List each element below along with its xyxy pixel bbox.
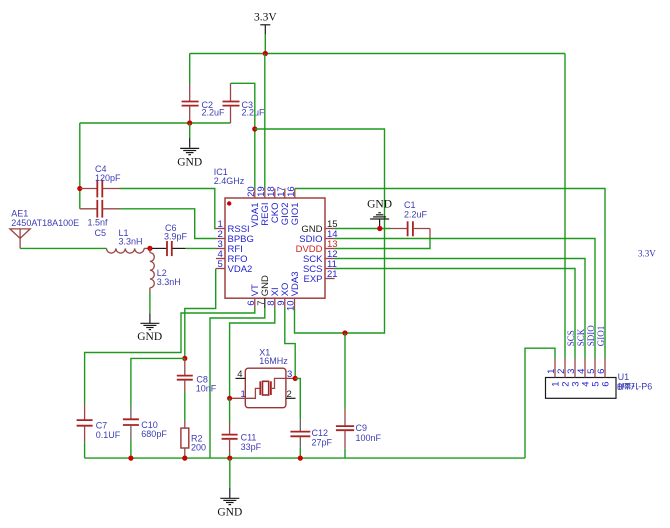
svg-text:SCS: SCS bbox=[566, 330, 576, 346]
svg-text:2.4GHz: 2.4GHz bbox=[214, 176, 245, 186]
capacitor C6 bbox=[152, 223, 188, 256]
wire XI pin8 to X1 pin1 bbox=[230, 308, 275, 398]
capacitor C1 bbox=[391, 200, 431, 238]
wire GIO1 pin16 to connector pin6 bbox=[295, 189, 605, 359]
svg-text:C5: C5 bbox=[95, 228, 107, 238]
svg-text:C9: C9 bbox=[356, 423, 368, 433]
node X1 pin1 junction bbox=[227, 396, 232, 401]
svg-text:GIO1: GIO1 bbox=[290, 203, 301, 226]
connector U1 pin 5 bbox=[586, 359, 602, 387]
svg-text:100nF: 100nF bbox=[356, 433, 382, 443]
svg-text:VDA3: VDA3 bbox=[290, 271, 301, 296]
IC1 pin 14 SDIO bbox=[299, 229, 337, 245]
IC1 pin 18 CKO bbox=[266, 186, 281, 223]
capacitor C4 bbox=[80, 164, 121, 197]
wire antenna feed bbox=[20, 247, 106, 249]
svg-text:33pF: 33pF bbox=[241, 442, 262, 452]
inductor L2 bbox=[150, 248, 181, 292]
svg-text:GND: GND bbox=[217, 507, 242, 519]
wire XO pin9 to X1 pin3 bbox=[285, 308, 295, 378]
IC1 pin 11 SCS bbox=[303, 259, 337, 275]
svg-text:6: 6 bbox=[601, 382, 612, 387]
node C12 rail junction bbox=[298, 456, 303, 461]
IC1 pin 13 DVDD bbox=[296, 239, 338, 255]
wire C5 to BPBG pin2 bbox=[120, 209, 217, 239]
wire C4 to RSSI pin1 bbox=[120, 189, 217, 229]
node X1 pin3 junction bbox=[293, 376, 298, 381]
capacitor C2 bbox=[182, 84, 225, 123]
ground GND (bottom) bbox=[217, 458, 242, 518]
svg-text:3.3nH: 3.3nH bbox=[119, 237, 143, 247]
connector U1 pin 2 bbox=[556, 359, 572, 387]
IC1 pin 4 RFO bbox=[216, 249, 248, 265]
svg-text:VDA2: VDA2 bbox=[228, 264, 253, 275]
ground GND (below C2) bbox=[177, 123, 202, 168]
wire C6 to RFI pin3 bbox=[186, 247, 216, 249]
capacitor C11 bbox=[222, 398, 262, 458]
wire C4/C5 left rail bbox=[79, 123, 81, 209]
wire SCS pin11 to connector pin3 bbox=[335, 269, 575, 359]
wire C3 top to VDA1 bbox=[231, 83, 255, 188]
IC1 pin 9 XO bbox=[276, 283, 291, 308]
svg-text:SCK: SCK bbox=[576, 328, 586, 346]
IC IC1 body bbox=[214, 167, 325, 298]
svg-text:1.5nf: 1.5nf bbox=[88, 218, 109, 228]
IC1 pin 21 EXP bbox=[303, 269, 337, 285]
node C11 rail junction bbox=[227, 456, 232, 461]
capacitor C12 bbox=[290, 378, 332, 458]
connector U1 pin 4 bbox=[576, 359, 592, 387]
wire C2 top drop bbox=[189, 54, 191, 85]
svg-text:21: 21 bbox=[327, 269, 338, 280]
wire VDA2 pin5 to C8/C10 node bbox=[185, 269, 216, 359]
svg-text:-P6: -P6 bbox=[638, 382, 652, 392]
inductor L1 bbox=[107, 228, 150, 253]
IC1 pin 16 GIO1 bbox=[286, 186, 301, 225]
svg-text:EXP: EXP bbox=[303, 274, 322, 285]
ground GND (below L2) bbox=[137, 313, 162, 343]
svg-text:2: 2 bbox=[287, 389, 292, 400]
node R2 rail junction bbox=[182, 456, 187, 461]
connector U1 value label (Chinese stamp-hole text, drawn) bbox=[618, 383, 638, 390]
svg-text:27pF: 27pF bbox=[312, 437, 333, 447]
wire VDA net loop to VDA3 bbox=[255, 129, 385, 333]
capacitor C7 bbox=[77, 404, 121, 459]
svg-text:3.3V: 3.3V bbox=[638, 249, 656, 259]
resistor R2 bbox=[181, 421, 206, 458]
svg-text:3.3V: 3.3V bbox=[254, 12, 277, 24]
connector U1 pin 3 bbox=[566, 359, 582, 387]
IC1 pin 12 SCK bbox=[303, 249, 338, 265]
svg-text:4: 4 bbox=[237, 369, 242, 380]
IC1 pin 17 GIO2 bbox=[276, 186, 291, 225]
svg-text:GND: GND bbox=[367, 199, 392, 211]
wire GND pin15 bbox=[335, 228, 391, 230]
wire SDIO pin14 to connector pin5 bbox=[335, 239, 595, 359]
svg-text:10: 10 bbox=[286, 300, 297, 311]
capacitor C9 bbox=[336, 333, 382, 458]
svg-text:680pF: 680pF bbox=[141, 429, 167, 439]
antenna AE1 bbox=[10, 209, 79, 249]
capacitor C8 bbox=[177, 358, 217, 421]
wire GND pin7 to bottom rail bbox=[210, 308, 265, 458]
node L1/L2/C6 junction bbox=[147, 246, 152, 251]
svg-text:120pF: 120pF bbox=[95, 173, 121, 183]
wire 3.3V stem bbox=[264, 34, 266, 54]
node VDA1 branch junction bbox=[252, 126, 257, 131]
wire L2 to ground bbox=[149, 292, 151, 313]
node VDA2/C8/C10 junction bbox=[182, 356, 187, 361]
wire VT pin6 to C7 rail bbox=[85, 308, 255, 404]
node GND/C1 junction bbox=[377, 226, 382, 231]
connector U1 pin 1 bbox=[546, 359, 562, 387]
svg-text:2.2uF: 2.2uF bbox=[202, 108, 226, 118]
IC1 pin 6 VT bbox=[246, 284, 261, 308]
node 3.3V junction bbox=[263, 51, 268, 56]
IC1 pin 15 GND bbox=[301, 219, 337, 235]
wire REGI from 3.3V rail bbox=[264, 54, 266, 189]
wire GND rail upper bbox=[80, 122, 231, 124]
wire bottom GND rail bbox=[85, 457, 525, 459]
node C4 left junction bbox=[77, 186, 82, 191]
node C2/GND junction bbox=[187, 120, 192, 125]
svg-text:5: 5 bbox=[218, 259, 223, 270]
svg-text:3: 3 bbox=[287, 369, 292, 380]
svg-text:2450AT18A100E: 2450AT18A100E bbox=[11, 218, 79, 228]
svg-text:C7: C7 bbox=[96, 420, 108, 430]
crystal X1 16MHz bbox=[230, 347, 296, 407]
svg-text:C1: C1 bbox=[404, 200, 416, 210]
wire C10 branch rail bbox=[131, 358, 185, 406]
svg-text:2.2uF: 2.2uF bbox=[242, 108, 266, 118]
capacitor C5 bbox=[80, 200, 120, 238]
svg-text:GND: GND bbox=[137, 331, 162, 343]
svg-text:1: 1 bbox=[241, 389, 246, 400]
svg-text:GIO1: GIO1 bbox=[596, 326, 606, 347]
node C10 rail junction bbox=[128, 456, 133, 461]
IC1 pin 2 BPBG bbox=[216, 229, 254, 245]
wire 3.3V top rail bbox=[190, 53, 565, 55]
svg-text:10nF: 10nF bbox=[196, 383, 217, 393]
IC1 pin 3 RFI bbox=[216, 239, 243, 255]
capacitor C10 bbox=[123, 407, 167, 459]
wire 3.3V vertical to connector pin2 bbox=[564, 54, 566, 359]
svg-text:2.2uF: 2.2uF bbox=[404, 210, 428, 220]
svg-text:SDIO: SDIO bbox=[586, 325, 596, 347]
IC1 pin 8 XI bbox=[266, 287, 281, 308]
svg-text:6: 6 bbox=[596, 369, 607, 374]
wire bottom rail to connector pin1 bbox=[525, 348, 555, 458]
wire C1 to DVDD pin13 bbox=[335, 238, 430, 249]
wire SCK pin12 to connector pin4 bbox=[335, 259, 585, 359]
svg-text:GND: GND bbox=[177, 156, 202, 168]
connector U1 body bbox=[546, 372, 630, 399]
svg-text:200: 200 bbox=[191, 443, 206, 453]
ground GND (inverted, right of IC) bbox=[367, 199, 392, 229]
svg-text:16MHz: 16MHz bbox=[259, 356, 288, 366]
svg-text:0.1UF: 0.1UF bbox=[96, 430, 121, 440]
IC1 pin 7 GND bbox=[256, 275, 271, 308]
node VDA/C9 junction bbox=[342, 330, 347, 335]
connector U1 pin 6 bbox=[596, 359, 612, 387]
IC1 pin 19 REGI bbox=[256, 186, 271, 225]
IC1 pin 5 VDA2 bbox=[216, 259, 252, 275]
capacitor C3 bbox=[223, 83, 266, 123]
svg-text:3.9pF: 3.9pF bbox=[164, 232, 188, 242]
IC1 pin 20 VDA1 bbox=[246, 186, 261, 227]
IC1 pin 1 RSSI bbox=[216, 219, 250, 235]
svg-text:U1: U1 bbox=[618, 372, 630, 382]
IC1 pin 10 VDA3 bbox=[286, 271, 301, 311]
svg-text:3.3nH: 3.3nH bbox=[157, 277, 181, 287]
power port 3.3V (top) bbox=[254, 12, 277, 34]
